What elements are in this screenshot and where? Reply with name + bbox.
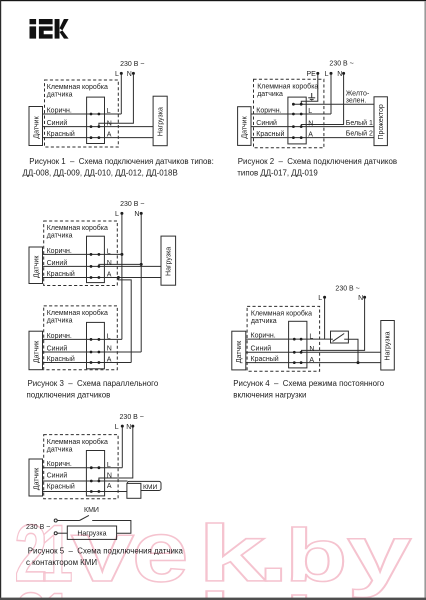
svg-text:Коричн.: Коричн. [47,248,72,255]
svg-text:типов ДД-017, ДД-019: типов ДД-017, ДД-019 [237,169,318,178]
svg-text:230 В ~: 230 В ~ [120,414,144,421]
svg-text:датчика: датчика [47,446,73,453]
wire L supply fig5 [121,427,123,468]
junction L upper fig3 [120,253,123,256]
svg-text:Белый 2: Белый 2 [346,129,373,137]
svg-text:N: N [358,295,363,302]
svg-text:Коричн.: Коричн. [47,107,72,114]
svg-text:L: L [115,71,119,78]
svg-text:Рисунок 1 – Схема подключени: Рисунок 1 – Схема подключения датчиков т… [29,157,214,166]
svg-text:L: L [107,108,111,115]
wire L supply fig2 [330,74,332,114]
svg-text:с контактором КМИ: с контактором КМИ [26,558,97,567]
load box fig3 [161,236,176,285]
svg-text:Датчик: Датчик [236,340,243,363]
svg-text:L: L [309,333,313,340]
svg-text:N: N [337,71,342,78]
junction N upper fig3 [140,263,143,266]
svg-text:L: L [325,71,329,78]
svg-text:L: L [308,108,312,115]
svg-text:L: L [107,462,111,469]
svg-text:Нагрузка: Нагрузка [166,247,173,276]
terminal dots fig1 [90,113,93,116]
wire contact to load fig5 [92,521,131,534]
svg-text:ДД-008, ДД-009, ДД-010, ДД-012: ДД-008, ДД-009, ДД-010, ДД-012, ДД-018В [23,169,178,178]
svg-text:Коричн.: Коричн. [251,333,276,340]
svg-text:Синий: Синий [47,344,68,352]
load box fig5 [67,526,116,539]
wire N supply fig5 [99,427,133,481]
svg-text:e: e [132,571,188,600]
svg-text:k: k [198,577,267,600]
wire N supply fig1 [99,74,133,126]
sensor box fig1 [29,107,43,146]
svg-text:Белый 1: Белый 1 [346,119,373,127]
junction A upper fig3 [117,276,120,279]
svg-text:Желто-: Желто- [346,90,370,97]
wire neutral to load fig5 [57,532,67,534]
wire PE yellow-green fig2 [293,103,374,105]
svg-text:Коричн.: Коричн. [47,461,72,468]
wire blue fig1 [43,126,154,128]
svg-text:датчика: датчика [47,233,73,240]
wire red lower fig3 [43,362,132,364]
wire brown fig5 [43,467,123,469]
wire brown fig1 [43,113,122,115]
svg-text:A: A [107,483,112,490]
svg-text:Рисунок 3 – Схема параллельн: Рисунок 3 – Схема параллельного [28,379,159,388]
terminal block fig4 [289,321,307,368]
svg-text:КМИ: КМИ [143,484,158,491]
svg-text:Коричн.: Коричн. [47,333,72,340]
svg-text:A: A [107,357,112,364]
load box fig1 [153,96,167,146]
svg-text:Клеммная коробка: Клеммная коробка [47,224,108,232]
svg-text:Рисунок 5 – Схема подключени: Рисунок 5 – Схема подключения датчика [28,547,184,556]
terminal block upper fig3 [87,236,105,282]
wire brown lower fig3 [43,338,122,340]
terminal dots upper fig3 [90,253,93,256]
svg-text:A: A [308,132,313,139]
wire A parallel link fig3 [118,278,131,363]
svg-text:N: N [308,120,313,127]
svg-text:N: N [126,424,131,431]
wire blue white1 fig2 [251,126,374,128]
svg-text:v: v [71,572,134,600]
switch KMI contact fig5 [57,520,79,522]
sensor box fig5 [29,459,43,496]
wire red upper fig3 [43,277,162,279]
terminal box (dashed) fig5 [44,435,118,499]
svg-text:Красный: Красный [251,355,279,363]
svg-text:L: L [107,249,111,256]
terminal block fig1 [87,97,105,143]
floodlight box fig2 [374,97,387,146]
svg-text:L: L [115,211,119,218]
wire red fig5 [43,491,127,493]
svg-text:N: N [107,120,112,127]
svg-text:Синий: Синий [47,259,68,267]
svg-text:Клеммная коробка: Клеммная коробка [257,82,318,90]
svg-text:Нагрузка: Нагрузка [157,107,164,136]
svg-text:Датчик: Датчик [34,255,41,278]
svg-text:1: 1 [40,577,73,600]
sensor box upper fig3 [29,247,43,284]
svg-text:Клеммная коробка: Клеммная коробка [47,438,108,446]
svg-text:230 В ~: 230 В ~ [120,61,144,68]
IEK logo [30,19,69,39]
wire red white2 fig2 [251,137,374,139]
wire red fig1 [43,137,154,139]
svg-text:датчика: датчика [47,92,73,99]
wire brown upper fig3 [43,253,122,255]
svg-text:L: L [318,295,322,302]
terminal box upper (dashed) fig3 [44,221,118,286]
wire blue fig5 [43,480,128,482]
svg-text:N: N [134,211,139,218]
svg-text:Красный: Красный [256,130,284,138]
svg-text:КМИ: КМИ [84,507,99,514]
svg-text:b: b [285,582,347,600]
wire red fig4 [246,362,381,364]
svg-text:Красный: Красный [47,130,75,138]
wire PE supply fig2 [301,74,318,104]
terminal box (dashed) fig2 [254,79,324,148]
svg-text:Датчик: Датчик [34,115,41,138]
wire L supply fig1 [120,74,122,114]
earth symbol fig2 [308,93,315,101]
svg-text:Прожектор: Прожектор [378,104,385,139]
sensor box fig4 [232,331,246,370]
svg-text:Синий: Синий [47,119,68,127]
svg-text:N: N [107,260,112,267]
terminal dots lower fig3 [90,338,93,341]
svg-text:N: N [107,472,112,479]
svg-text:Датчик: Датчик [34,340,41,363]
svg-text:Клеммная коробка: Клеммная коробка [251,310,312,318]
wire N supply fig3 [140,214,142,352]
terminal block fig2 [288,97,306,144]
svg-text:датчика: датчика [257,91,283,98]
wire brown fig2 [251,113,331,115]
svg-text:L: L [107,334,111,341]
svg-text:PE: PE [307,71,317,78]
watermark 21vek.by second row [15,571,412,600]
contactor KMI outline fig5 [127,481,161,490]
svg-text:Рисунок 4 – Схема режима пос: Рисунок 4 – Схема режима постоянного [233,379,384,388]
wire brown fig4 [246,338,331,340]
wire L supply fig3 [121,214,123,339]
terminal block lower fig3 [87,322,105,368]
svg-text:N: N [127,71,132,78]
svg-text:Синий: Синий [256,119,277,127]
terminal block fig5 [86,451,104,496]
wire L supply fig4 [324,298,326,339]
svg-text:зелен.: зелен. [346,98,367,105]
svg-text:230 В ~: 230 В ~ [26,524,50,531]
terminal box (dashed) fig1 [45,80,119,147]
svg-text:датчика: датчика [251,318,277,325]
terminal dots fig2 [292,103,295,106]
svg-text:230 В ~: 230 В ~ [335,285,359,292]
terminal dots fig5 [90,466,93,469]
wire switch to A fig4 [348,339,358,362]
wire blue fig4 [246,351,381,353]
terminal box (dashed) fig4 [247,306,320,371]
svg-text:230 В ~: 230 В ~ [329,60,353,67]
svg-text:A: A [107,132,112,139]
switch S1 fig4 [331,331,349,343]
svg-text:230 В ~: 230 В ~ [120,201,144,208]
svg-text:Синий: Синий [47,471,68,479]
sensor box fig2 [238,107,251,146]
svg-text:y: y [347,578,412,600]
watermark 21vek.by [15,503,412,600]
load box fig4 [381,321,395,371]
wire blue lower fig3 [43,351,142,353]
svg-text:Рисунок 2 – Схема подключени: Рисунок 2 – Схема подключения датчиков [238,157,397,166]
svg-text:L: L [115,424,119,431]
svg-text:Красный: Красный [47,482,75,490]
svg-text:Клеммная коробка: Клеммная коробка [47,309,108,317]
page border [0,0,426,1]
wire N branch upper fig3 [99,264,141,266]
svg-text:датчика: датчика [47,318,73,325]
junction switch-A fig4 [357,361,360,364]
svg-text:Нагрузка: Нагрузка [385,331,392,360]
svg-text:Синий: Синий [251,345,272,353]
contactor coil KMI fig5 [127,483,141,498]
wire N supply fig2 [301,74,343,126]
svg-text:A: A [309,357,314,364]
svg-text:Коричн.: Коричн. [256,107,281,114]
svg-text:Клеммная коробка: Клеммная коробка [47,83,108,91]
svg-text:Красный: Красный [47,355,75,363]
svg-text:подключения датчиков: подключения датчиков [27,390,111,399]
svg-text:N: N [309,346,314,353]
svg-text:Датчик: Датчик [34,467,41,490]
terminal box lower (dashed) fig3 [44,306,118,370]
svg-text:Нагрузка: Нагрузка [77,531,106,538]
svg-text:A: A [107,272,112,279]
svg-text:Датчик: Датчик [242,115,249,138]
terminal dots fig4 [293,338,296,341]
wire N supply fig4 [302,298,365,352]
svg-text:N: N [107,346,112,353]
svg-text:Красный: Красный [47,270,75,278]
sensor box lower fig3 [29,331,43,370]
wire blue upper fig3 [43,265,162,267]
svg-text:включения нагрузки: включения нагрузки [233,390,306,399]
